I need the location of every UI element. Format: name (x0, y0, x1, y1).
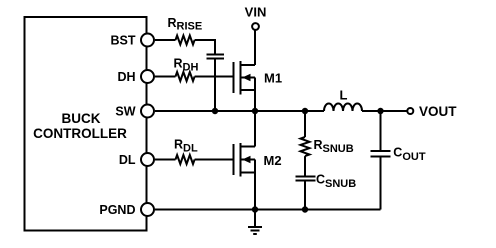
node PGND junction dot C_SNUB (302, 206, 308, 212)
pin SW (141, 105, 154, 118)
terminal VIN (252, 23, 259, 30)
node SW junction dot snubber (302, 108, 308, 114)
capacitor C_SNUB (296, 176, 316, 178)
svg-text:VOUT: VOUT (419, 104, 457, 119)
svg-text:CONTROLLER: CONTROLLER (33, 126, 127, 141)
wire R_DL to M2 gate (195, 159, 233, 161)
terminal VOUT (407, 108, 413, 114)
wire M2 source to ground rail (254, 173, 256, 210)
transistor M2 (234, 143, 256, 177)
node PGND junction dot M2 source (252, 206, 258, 212)
wire C_OUT to ground rail (380, 158, 382, 210)
transistor M1 (234, 61, 256, 95)
svg-text:L: L (340, 88, 348, 103)
wire M1 drain to VIN (254, 31, 256, 66)
resistor R_DH (176, 72, 195, 81)
wire bootstrap cap to SW node (214, 60, 216, 112)
resistor R_SNUB (301, 137, 310, 156)
wire R_RISE to bootstrap cap (195, 40, 215, 54)
wire R_SNUB to C_SNUB (304, 156, 306, 175)
svg-text:SW: SW (115, 104, 135, 118)
node SW junction dot M1 source (252, 108, 258, 114)
resistor R_DL (176, 155, 195, 164)
wire M1 source to SW rail (254, 90, 256, 111)
svg-text:PGND: PGND (99, 203, 135, 217)
wire SW rail (155, 110, 324, 112)
wire L to VOUT (362, 110, 407, 112)
resistor R_RISE (176, 36, 195, 45)
pin DH (141, 70, 154, 83)
pin DL (141, 153, 154, 166)
svg-text:BST: BST (111, 33, 136, 47)
capacitor C_OUT (371, 150, 391, 152)
wire PGND ground rail (155, 209, 381, 211)
pin PGND (141, 203, 154, 216)
svg-text:M1: M1 (264, 71, 282, 86)
wire BST pin to R_RISE (155, 39, 176, 41)
node SW junction dot bootstrap (212, 108, 218, 114)
svg-text:DL: DL (119, 153, 136, 167)
wire R_DH to M1 gate (195, 76, 233, 78)
svg-text:DH: DH (117, 70, 135, 84)
wire C_OUT branch from VOUT rail (380, 111, 382, 150)
wire DL pin to R_DL (155, 159, 176, 161)
capacitor C_BST (bootstrap) (207, 54, 225, 56)
wire C_SNUB to ground rail (304, 182, 306, 210)
svg-text:VIN: VIN (245, 5, 267, 20)
IC U1 buck controller box (25, 17, 147, 231)
wire M2 drain to SW node (254, 111, 256, 147)
node VOUT junction dot C_OUT (377, 108, 383, 114)
pin BST (141, 34, 154, 47)
svg-text:M2: M2 (264, 153, 282, 168)
wire snubber branch from SW (304, 111, 306, 137)
svg-text:BUCK: BUCK (62, 111, 101, 126)
ground (248, 210, 262, 235)
inductor L (324, 104, 362, 111)
wire DH pin to R_DH (155, 76, 176, 78)
